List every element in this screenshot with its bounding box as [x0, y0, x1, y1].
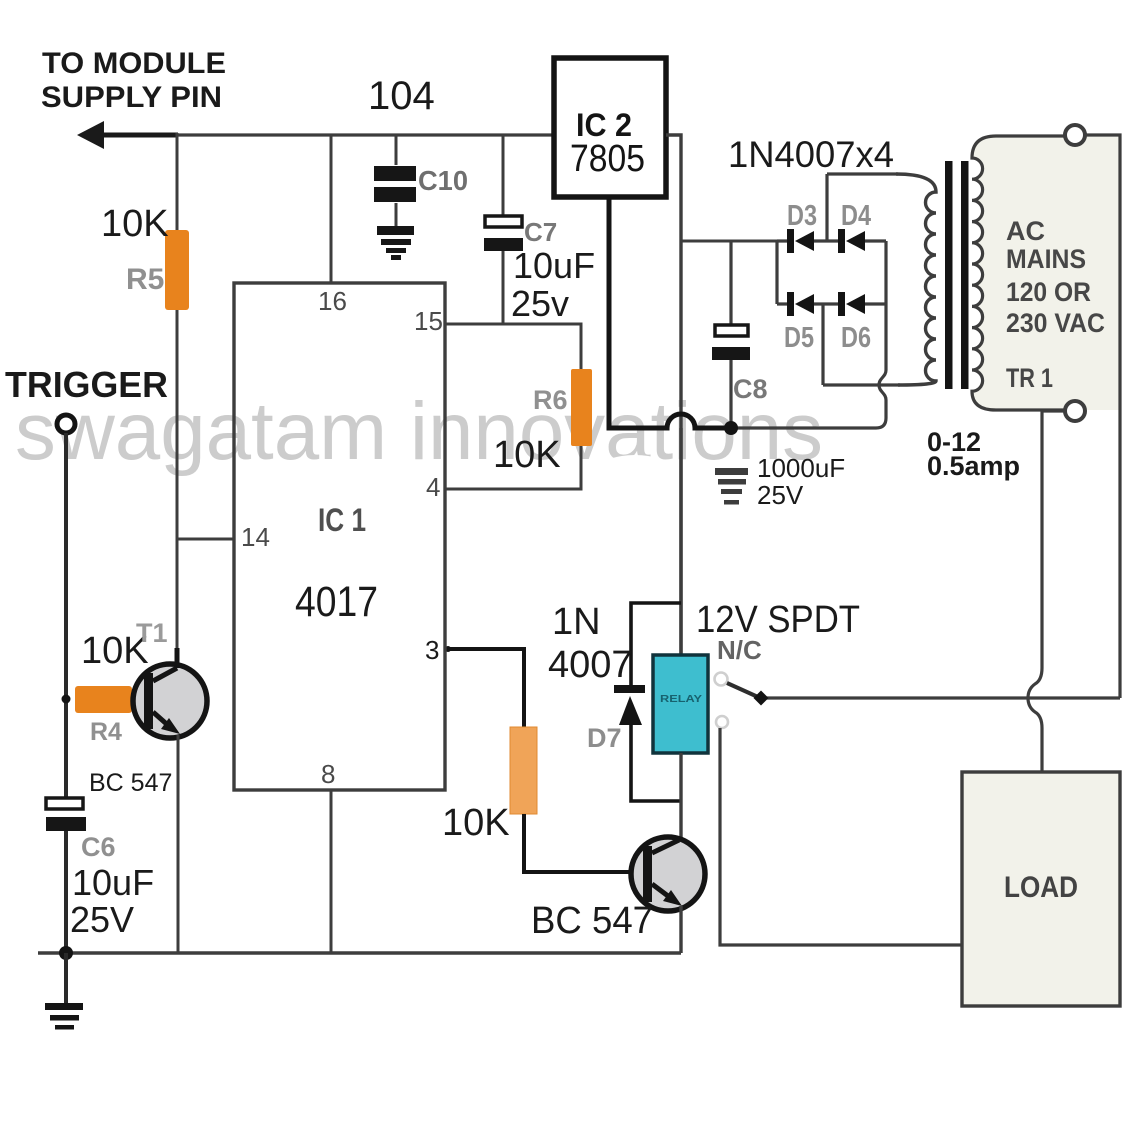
- wire T1 emitter to ground rail: [177, 735, 180, 953]
- wire pin 14: [177, 538, 234, 541]
- relay coil supply wire from +12V: [679, 428, 682, 655]
- svg-text:TR 1: TR 1: [1006, 363, 1053, 393]
- svg-text:TRIGGER: TRIGGER: [5, 364, 168, 405]
- capacitor C6: [46, 798, 86, 953]
- svg-text:15: 15: [414, 306, 443, 336]
- svg-text:10K: 10K: [493, 434, 561, 476]
- wire pin16 to 5V rail: [330, 135, 333, 283]
- svg-text:N/C: N/C: [717, 635, 762, 665]
- resistor base 10K: [510, 727, 537, 814]
- svg-text:25V: 25V: [757, 480, 804, 510]
- wire pin 3 to base resistor: [446, 649, 524, 727]
- wire ground node to bridge negative: [731, 241, 886, 428]
- svg-text:T1: T1: [136, 618, 168, 648]
- svg-text:D4: D4: [841, 200, 871, 232]
- svg-text:230 VAC: 230 VAC: [1006, 308, 1105, 338]
- svg-text:D3: D3: [787, 200, 817, 232]
- diode D4: [838, 229, 865, 253]
- svg-text:14: 14: [241, 522, 270, 552]
- bridge rectifier wires: [777, 174, 886, 385]
- wire bridge + output to IC2 input: [681, 240, 777, 243]
- resistor R5: [165, 230, 189, 310]
- LOAD box: [962, 772, 1120, 1006]
- svg-text:R5: R5: [126, 263, 164, 296]
- resistor R6: [571, 369, 592, 446]
- contact N/O: [716, 716, 728, 728]
- svg-text:MAINS: MAINS: [1006, 244, 1086, 274]
- node pin 3 junction: [445, 646, 451, 652]
- svg-text:16: 16: [318, 286, 347, 316]
- wire relay bottom to Q2 collector: [679, 753, 682, 840]
- terminal trigger input: [57, 415, 75, 433]
- diode D5: [787, 292, 814, 316]
- wire pin 15 to R6: [446, 324, 581, 369]
- label TO MODULE SUPPLY PIN: [41, 47, 226, 114]
- svg-text:C8: C8: [733, 374, 768, 404]
- node R4 tap: [62, 695, 71, 704]
- svg-text:C10: C10: [418, 165, 468, 196]
- svg-text:10uF: 10uF: [513, 245, 595, 286]
- svg-text:104: 104: [368, 74, 435, 118]
- node switch pole dot: [754, 691, 769, 706]
- svg-text:D6: D6: [841, 322, 871, 354]
- wire AC bottom from bridge to transformer: [823, 383, 900, 386]
- wire R4 to T1 base: [132, 697, 144, 701]
- wire junction to ground symbol: [64, 953, 68, 1004]
- label 0-12 0.5amp: [927, 427, 1020, 481]
- label AC MAINS 120 OR 230 VAC: [1006, 216, 1105, 393]
- wire left vertical from rail to R5: [176, 133, 179, 230]
- svg-text:D5: D5: [784, 322, 814, 354]
- svg-text:4007: 4007: [548, 644, 633, 686]
- diode D3: [787, 229, 814, 253]
- wire supply arrow to module: [96, 133, 178, 138]
- svg-text:AC: AC: [1006, 216, 1045, 246]
- node ground junction dot: [724, 421, 738, 435]
- svg-text:BC 547: BC 547: [89, 769, 172, 797]
- svg-text:10K: 10K: [442, 802, 510, 844]
- transformer core: [945, 161, 953, 389]
- wire top 5V rail: [177, 133, 554, 136]
- diode D7 loop wires: [631, 603, 681, 801]
- svg-text:LOAD: LOAD: [1004, 871, 1078, 904]
- transformer TR1 primary coil and box outline: [972, 136, 1064, 410]
- AC mains box fill: [972, 136, 1120, 410]
- transistor T1 BC547: [133, 664, 207, 738]
- resistor R4: [75, 686, 132, 713]
- node ground rail C6 junction: [59, 946, 73, 960]
- diode D6: [838, 292, 865, 316]
- svg-text:BC 547: BC 547: [531, 900, 653, 942]
- relay RL1 12V SPDT: [653, 655, 708, 753]
- IC1 4017 box: [234, 283, 445, 790]
- svg-text:IC 1: IC 1: [318, 502, 366, 538]
- terminal AC bottom: [1065, 401, 1085, 421]
- svg-text:3: 3: [425, 635, 439, 665]
- wire N/O contact to LOAD bottom: [720, 728, 962, 945]
- svg-text:120 OR: 120 OR: [1006, 277, 1091, 307]
- svg-text:1N4007x4: 1N4007x4: [728, 134, 894, 175]
- wire AC top from bridge to transformer: [827, 172, 898, 175]
- wire ground rail: [38, 951, 681, 954]
- switch lever: [727, 683, 758, 697]
- svg-text:TO MODULE: TO MODULE: [42, 47, 226, 80]
- svg-text:7805: 7805: [570, 138, 645, 180]
- ground symbol main: [45, 1003, 83, 1030]
- capacitor C10: [374, 135, 416, 226]
- wire IC2 input +12V vertical: [666, 135, 681, 655]
- wire T1 collector stub: [175, 648, 180, 668]
- ground below C10: [377, 226, 414, 260]
- svg-text:10uF: 10uF: [72, 862, 154, 903]
- svg-text:1N: 1N: [552, 601, 601, 643]
- svg-text:8: 8: [321, 759, 335, 789]
- contact N/C: [715, 673, 728, 686]
- ground below C8: [715, 468, 748, 505]
- svg-text:25V: 25V: [70, 899, 134, 940]
- voltage regulator IC2 7805: [554, 58, 666, 197]
- wire Q2 emitter to ground rail: [679, 906, 682, 953]
- wire AC bottom terminal to LOAD with hop: [1028, 411, 1065, 772]
- svg-text:4: 4: [426, 472, 440, 502]
- wire AC top terminal to right edge down to switch: [1085, 135, 1120, 698]
- terminal AC top: [1065, 125, 1085, 145]
- svg-text:SUPPLY PIN: SUPPLY PIN: [41, 81, 222, 114]
- svg-text:R4: R4: [90, 718, 122, 746]
- wire R6 to pin 4: [446, 446, 581, 489]
- svg-text:4017: 4017: [295, 578, 378, 626]
- svg-text:1000uF: 1000uF: [757, 453, 845, 483]
- svg-text:RELAY: RELAY: [660, 694, 702, 705]
- svg-text:C7: C7: [524, 217, 557, 247]
- wire pin 8 to ground rail: [330, 790, 333, 953]
- svg-text:D7: D7: [587, 723, 622, 753]
- svg-text:C6: C6: [81, 832, 116, 862]
- svg-text:R6: R6: [533, 385, 568, 415]
- transformer TR1 secondary coil: [896, 174, 936, 385]
- svg-text:25v: 25v: [511, 283, 569, 324]
- arrowhead: [77, 121, 104, 149]
- transistor Q2 BC547: [631, 837, 705, 911]
- svg-text:0.5amp: 0.5amp: [927, 451, 1020, 481]
- wire IC2 ground with hop: [609, 197, 731, 428]
- capacitor C8: [712, 241, 750, 428]
- wire switch pole to AC line: [764, 696, 1120, 699]
- wire R5 bottom to pin14 node and T1 collector: [176, 310, 179, 667]
- diode D7: [614, 685, 645, 725]
- white patch: [567, 455, 703, 559]
- wire base resistor to Q2 base: [524, 814, 643, 872]
- capacitor C7: [484, 135, 523, 324]
- svg-text:10K: 10K: [101, 203, 169, 245]
- wire trigger down to C6 and R4 node: [64, 433, 68, 798]
